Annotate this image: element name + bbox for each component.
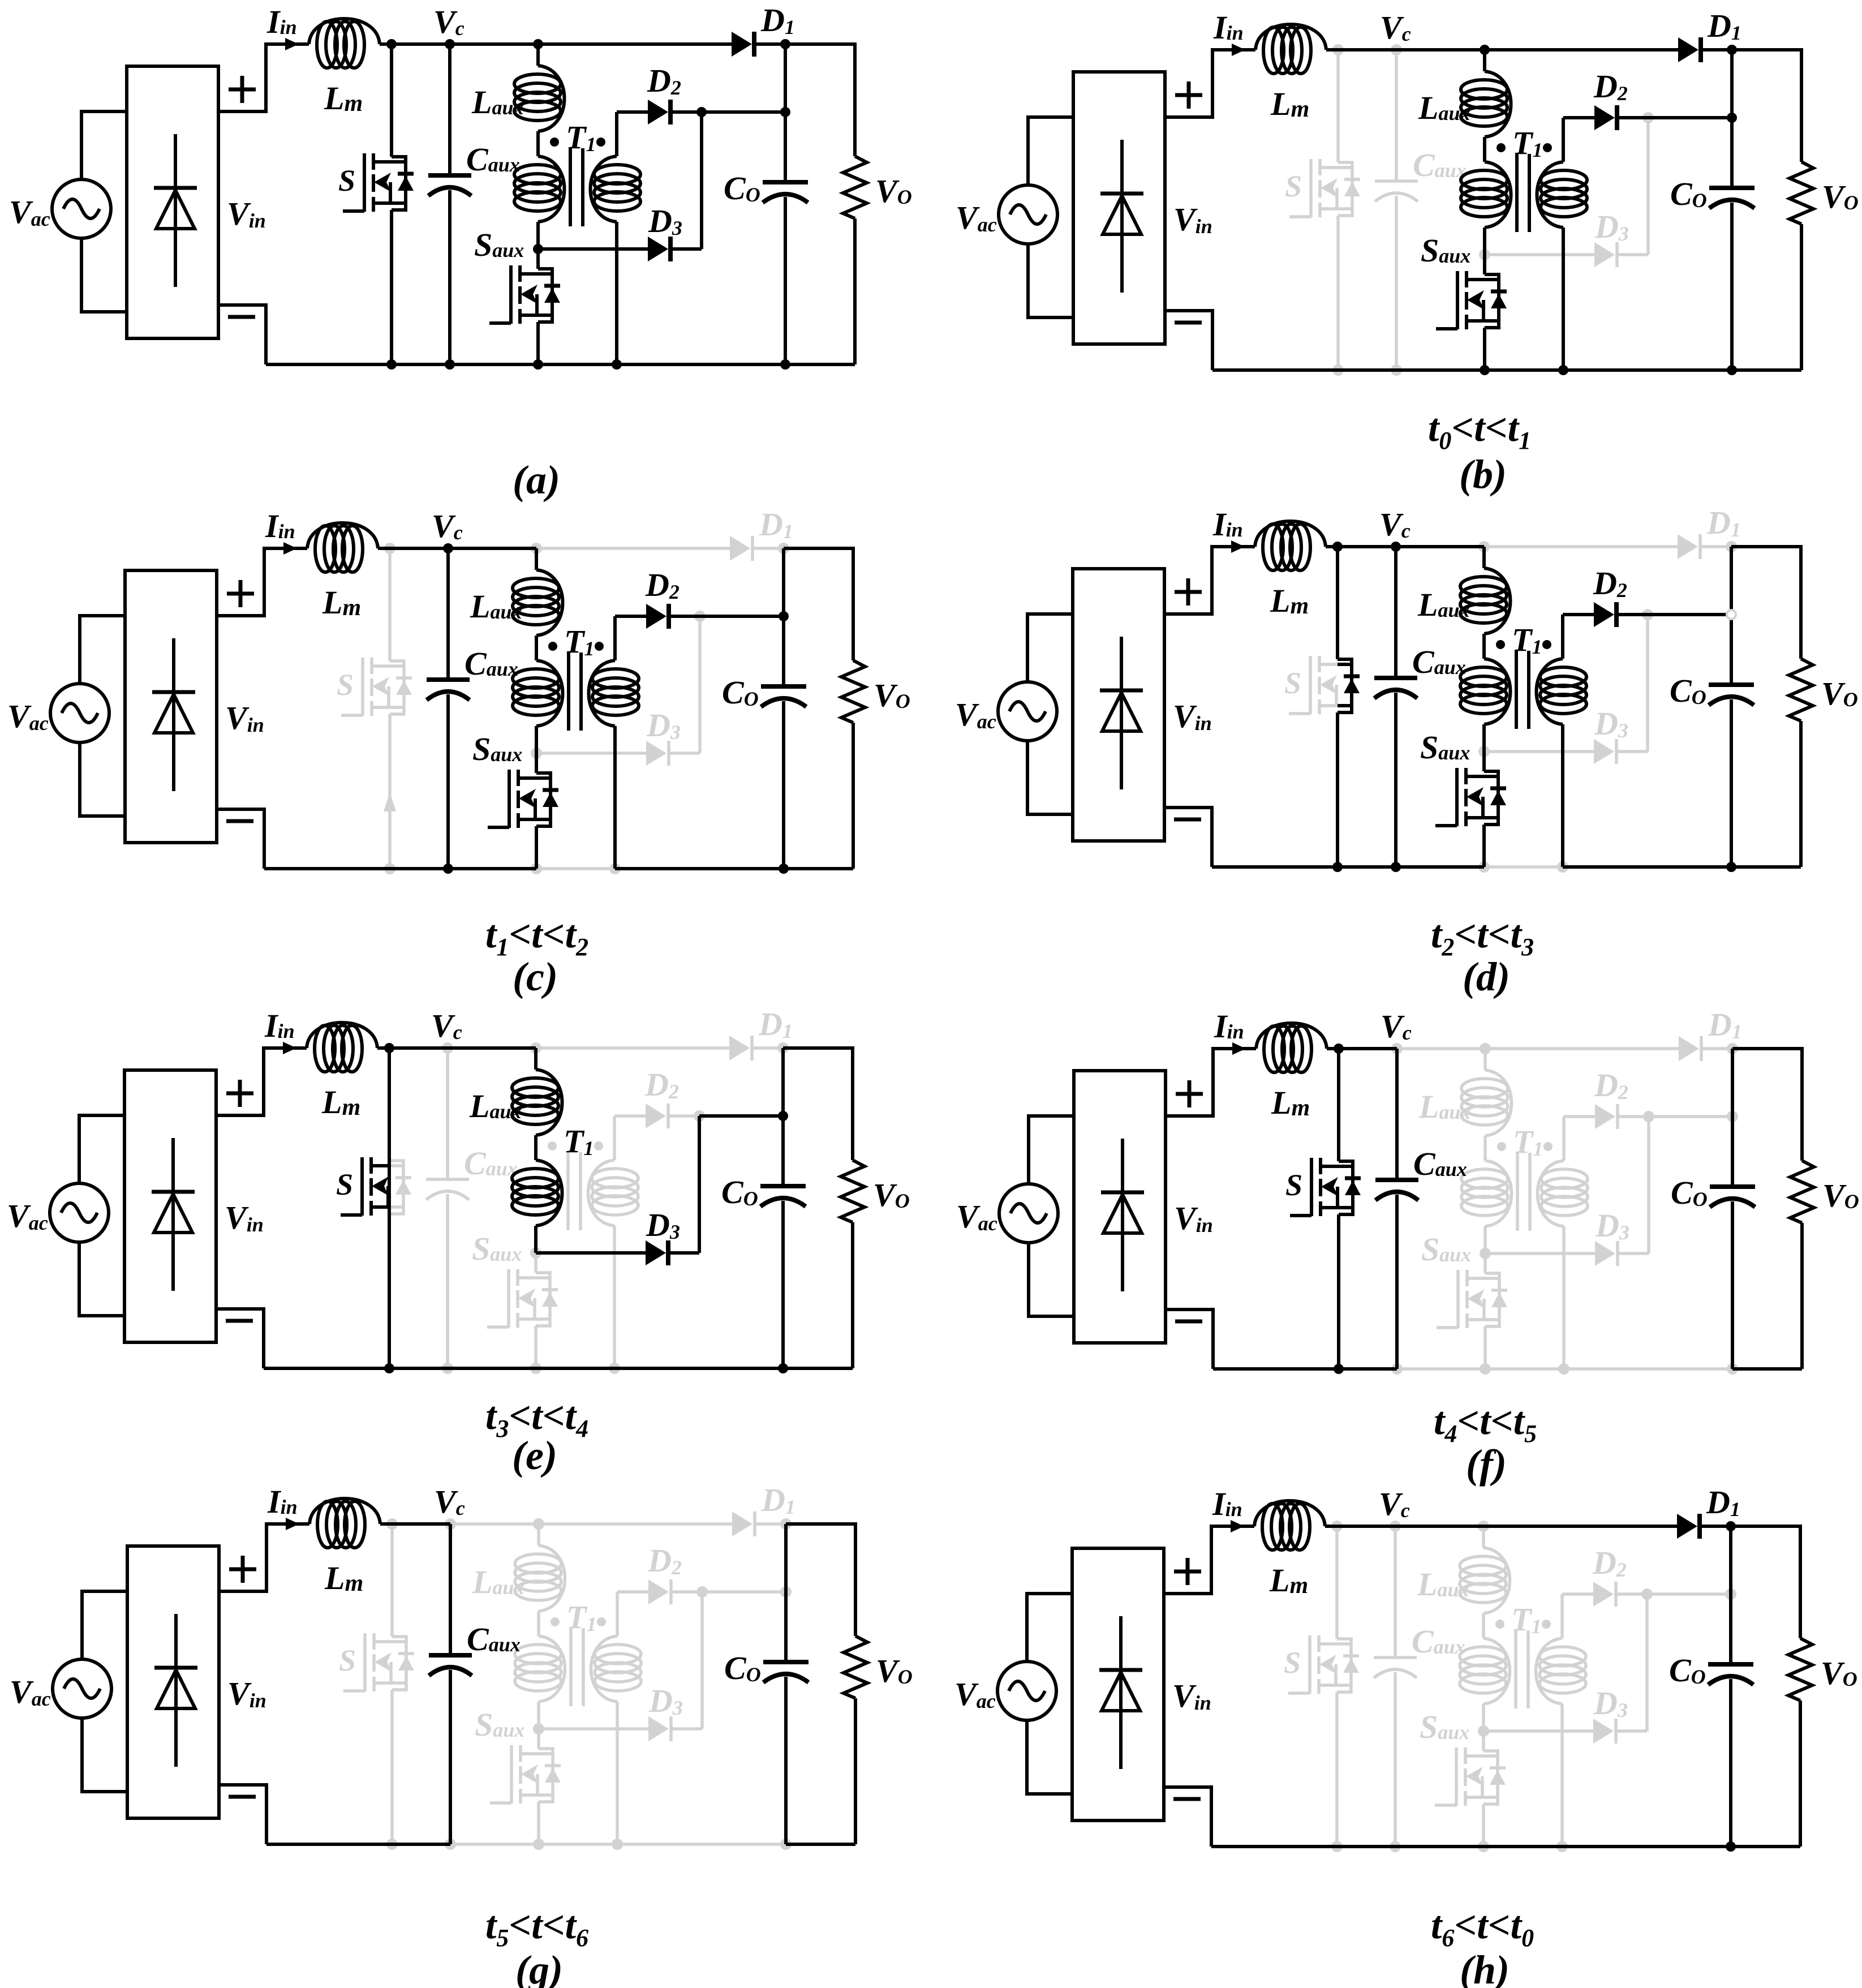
input current arrow Iin [1231,1520,1244,1532]
T1 polarity dot left [1496,640,1505,649]
wire top to Laux [1483,50,1486,71]
input current arrow Iin [283,1042,296,1054]
bottom rail Caux to Saux [450,1843,539,1846]
rail dot Saux [531,863,542,874]
inductor Lm [307,1023,377,1048]
svg-text:(d): (d) [1463,954,1510,999]
rail dot S [386,359,397,370]
node dot Saux [533,244,543,254]
wire top to Laux [534,1048,537,1070]
transformer T1 secondary winding [1560,1594,1564,1638]
wire Co to rail [784,1677,788,1844]
resistor Vo load [1790,1161,1814,1223]
wire secondary to D2 [1563,613,1594,616]
wire bridge to bottom rail [217,809,264,869]
transformer T1 core [1517,154,1529,232]
wire node N2 to node N3 [1649,1115,1732,1118]
wire Lm to node S [378,547,448,550]
bottom rail Co to corner [784,867,853,870]
node dot Saux [531,748,542,759]
riser D3 to N2 [1646,615,1649,752]
node dot Saux [1480,1248,1491,1259]
AC source Vac [998,682,1057,741]
wire Caux branch lower [449,1670,452,1844]
transformer T1 secondary winding [613,1116,616,1160]
wire N1 to N3 [781,1048,785,1116]
wire Saux node to D3 [1485,1252,1595,1255]
minus terminal [226,819,253,823]
wire Saux node to D3 [1483,1729,1593,1733]
wire bridge to bottom rail [219,1785,266,1844]
switch S gate and channel [1308,1635,1311,1694]
T1 polarity dot right [1543,1142,1553,1151]
T1 polarity dot right [594,1141,603,1150]
rail dot secondary [609,863,621,874]
rail dot S [386,1839,398,1850]
wire N3 to Co [784,112,787,182]
bottom rail Co to corner [785,363,855,366]
wire Caux branch upper [1395,50,1398,181]
wire node Laux to diode D1 [1485,48,1678,51]
rail dot secondary [609,1363,620,1374]
transformer T1 core [571,1628,583,1706]
resistor Vo load [844,1636,867,1698]
node dot N1 [1726,541,1737,552]
wire bridge to bottom rail [1165,311,1212,370]
wire Co to rail [1730,203,1734,370]
rail dot Saux [1480,365,1490,375]
bottom rail Saux to secondary [539,1843,617,1846]
node dot Vc [442,1042,453,1054]
wire D1 to node N1 [754,547,784,550]
minus terminal [1174,818,1201,822]
capacitor Caux [1374,1656,1417,1659]
T1 polarity dot right [597,1617,606,1626]
diode D1 [1678,37,1698,62]
bottom rail Saux to secondary [1483,1845,1562,1848]
resistor Vo load [841,1160,865,1222]
wire node Vc to node Laux [448,547,536,550]
switch Saux [1455,1747,1458,1806]
AC source Vac [53,1659,111,1718]
capacitor Co [763,1660,809,1664]
wire Caux branch upper [449,1524,452,1655]
wire secondary to D2 [617,1590,648,1594]
node dot N3 [780,1586,792,1598]
inductor Laux [1485,71,1511,137]
inductor Lm [1256,1023,1327,1049]
svg-text:S: S [1285,1168,1302,1202]
bottom rail S to Caux [392,1843,450,1846]
bottom rail Co to corner [1731,865,1801,869]
switch S body diode [1337,1639,1351,1692]
rail dot Co [779,864,789,874]
wire T1 to Saux drain [1482,752,1486,771]
wire N1 to N3 [1730,547,1733,615]
wire D1 to node N1 [1702,48,1732,51]
capacitor Caux [429,1653,472,1658]
transformer T1 core [568,1152,580,1230]
node dot N2 [696,1586,708,1598]
wire D3 to riser [1618,750,1648,753]
bottom rail bridge to S [1213,1367,1339,1371]
T1 polarity dot right [1542,640,1551,649]
input current arrow Iin [1232,44,1245,56]
wire bridge to bottom rail [1164,808,1212,867]
node dot Saux [533,1723,544,1734]
wire D3 to riser [672,1727,702,1731]
wire Laux to T1 primary [537,1611,540,1636]
wire N3 to Co [781,1116,785,1186]
input current arrow Iin [285,38,299,50]
wire secondary to D2 [617,110,648,114]
wire top to Laux [537,1524,540,1545]
diode D3 [648,1716,669,1741]
bottom rail Co to corner [1732,1367,1802,1371]
wire Laux to T1 primary [1483,137,1486,162]
node dot Saux [1479,249,1490,260]
capacitor Caux [1374,676,1417,680]
switch S gate and channel [1310,1158,1313,1216]
wire Saux source to rail [1483,328,1486,370]
bottom rail Caux to Saux [448,867,536,870]
wire Co to rail [1730,699,1733,867]
diode D3 [646,741,666,766]
minus terminal [226,1319,253,1323]
node dot top S [384,1043,394,1053]
wire node Laux to diode D1 [536,1046,729,1050]
wire S branch [388,548,392,661]
node dot top S [386,1518,398,1530]
wire node Vc to node Laux [1397,1047,1485,1050]
wire Saux source to rail [535,826,538,869]
bottom rail bridge to S [1212,368,1338,372]
wire S branch [1335,1526,1339,1639]
wire Lm to node S [380,1522,450,1526]
rail dot secondary [1557,861,1568,873]
plus terminal [1175,578,1202,606]
transformer T1 core [1517,1153,1530,1231]
node dot Vc [1391,44,1402,55]
node dot N1 [777,1042,789,1054]
inductor Lm [309,19,380,44]
wire node N2 to node N3 [700,615,784,618]
rail dot Caux [1391,1363,1403,1375]
switch S body diode [392,1637,406,1690]
bottom rail secondary to Co [1564,1367,1732,1371]
bottom rail bridge to S [264,1367,389,1370]
node dot top Laux [1478,1521,1489,1532]
node dot Vc [1391,1043,1403,1054]
wire node Vc to node Laux [1395,1525,1483,1528]
wire Co to rail [782,701,785,869]
diode D3 [1594,242,1615,267]
rail dot Caux [1391,364,1402,376]
wire Laux to T1 primary [1483,1136,1487,1161]
wire secondary to D2 [615,615,646,618]
AC source Vac [999,1184,1058,1243]
capacitor Co [1709,186,1755,190]
wire node N1 to top right corner [784,548,853,660]
capacitor Co [1708,1662,1753,1667]
wire D3 to riser [669,1251,699,1255]
wire Laux to T1 primary [534,1135,537,1160]
node dot top Laux [1480,45,1490,55]
bottom rail bridge to S [266,1843,392,1846]
switch S body diode [1339,1161,1353,1214]
bottom rail secondary to Co [1562,1845,1731,1848]
minus terminal [1175,1320,1202,1324]
wire Caux branch lower [1395,196,1398,370]
T1 polarity dot right [1542,1620,1551,1629]
bottom rail Co to corner [786,1843,855,1846]
diode D3 [648,237,668,261]
rail dot S [1332,364,1344,376]
bottom rail S to Caux [389,1367,448,1370]
capacitor Caux [1375,179,1418,183]
svg-text:(a): (a) [513,457,560,503]
diode D2 [1594,105,1615,130]
inductor Lm [1255,521,1326,547]
wire Caux branch upper [448,44,451,175]
rail dot Saux [533,1839,544,1850]
T1 polarity dot right [596,138,605,147]
wire D2 to node N2 [1617,1592,1647,1596]
riser D3 to N2 [1646,118,1650,255]
wire T1 to Saux drain [536,249,540,269]
wire D3 to riser [1619,1252,1649,1255]
wire Lm to node S [1326,545,1396,548]
AC source Vac [52,179,111,238]
svg-text:S: S [1285,169,1302,203]
diode D2 [646,604,666,629]
wire D3 to riser [670,752,700,755]
switch Saux [510,1745,513,1804]
bottom rail Co to corner [783,1367,853,1370]
resistor Vo load [1789,659,1813,721]
wire Saux source to rail [536,322,540,364]
riser D3 to N2 [700,1592,704,1729]
wire node N1 to top right corner [783,1048,853,1160]
diode D2 [646,1104,666,1128]
node dot Vc [445,39,455,49]
wire Caux branch upper [446,1048,449,1179]
diode D1 [1679,1036,1699,1061]
T1 polarity dot left [548,642,557,651]
wire bridge to bottom rail [218,305,266,364]
wire bridge to top rail [1164,547,1255,614]
wire bridge to bottom rail [216,1309,264,1368]
wire D1 to node N1 [1701,1525,1731,1528]
wire top to Laux [536,44,540,66]
transformer T1 secondary winding [616,1592,619,1636]
node dot top S [1332,44,1344,55]
plus terminal [1174,1558,1201,1585]
node dot Vc [1391,542,1401,552]
rail dot Co [1727,365,1737,375]
transformer T1 core [570,148,583,226]
svg-text:(c): (c) [513,954,558,999]
T1 polarity dot left [1497,1142,1506,1151]
switch S gate and channel [363,153,366,212]
wire D1 to node N1 [756,1522,786,1526]
wire Caux branch lower [446,694,450,869]
wire Lm to node S [1327,1047,1397,1050]
wire T1 to Saux drain [1483,255,1486,274]
riser D3 to N2 [700,112,703,249]
diode D1 [1678,534,1698,559]
bottom rail secondary to Co [614,1367,783,1370]
wire node Laux to diode D1 [539,1522,732,1526]
wire secondary to D2 [1563,116,1594,119]
diode D2 [648,100,668,124]
resistor Vo load [1788,1638,1812,1701]
wire T1 to Saux drain [1482,1731,1485,1751]
diode D1 [1677,1514,1697,1539]
bridge rectifier [127,66,218,338]
bottom rail S to Caux [1337,1845,1395,1848]
input current arrow Iin [283,542,297,555]
bottom rail bridge to S [1212,865,1338,869]
T1 polarity dot left [1495,1620,1504,1629]
bridge rectifier [125,570,217,843]
switch Saux [1456,271,1459,329]
rail dot Saux [1478,1841,1489,1852]
plus terminal [1176,1080,1203,1107]
wire node N2 to node N3 [702,1590,786,1594]
riser D3 to N2 [1645,1594,1649,1731]
bottom rail bridge to S [264,867,390,870]
switch Saux [1456,1270,1460,1328]
switch S gate and channel [361,658,364,716]
wire Laux to T1 primary [1482,634,1486,659]
node dot Vc [443,543,453,553]
plus terminal [229,1556,256,1583]
minus terminal [229,1795,256,1799]
bottom rail S to Caux [1338,368,1396,372]
node dot top S [1334,1044,1344,1054]
wire node N1 to top right corner [1731,1526,1800,1638]
wire Caux branch lower [446,1194,449,1368]
node open circle N3 [1727,610,1736,619]
wire D1 to node N1 [1702,1047,1732,1050]
switch S gate and channel [360,1157,364,1216]
wire D2 to node N2 [669,1114,699,1118]
bottom rail Saux to secondary [536,1367,614,1370]
T1 polarity dot right [1543,143,1552,152]
wire N1 to N3 [1729,1526,1732,1594]
wire S branch [1337,1049,1340,1161]
input current arrow Iin [1231,540,1245,553]
capacitor Caux [1375,1178,1418,1182]
svg-text:S: S [336,1167,353,1201]
svg-text:S: S [339,1643,356,1677]
diode D2 [1594,602,1614,627]
plus terminal [227,580,254,607]
bridge rectifier [1072,1548,1164,1820]
rail dot Caux [1391,862,1401,872]
wire Saux source to rail [1482,825,1486,867]
bottom rail S to Caux [1338,865,1396,869]
node dot N1 [778,543,789,554]
wire N3 to Co [784,1592,788,1662]
node dot N1 [780,39,790,49]
AC source Vac [999,185,1057,244]
bottom rail Saux to secondary [538,363,617,366]
wire node N2 to node N3 [1648,116,1732,119]
wire S branch [388,1048,391,1368]
wire Laux to T1 primary [536,131,540,156]
wire bridge to top rail [218,44,309,111]
bottom rail Caux to Saux [450,363,538,366]
node dot N3 [779,611,789,621]
capacitor Co [1710,1184,1755,1189]
node dot top S [384,543,395,554]
diode D3 [646,1240,666,1265]
wire D2 to node N2 [1618,116,1648,119]
switch S body diode [389,1161,403,1214]
diode D1 [732,1512,752,1536]
rail dot secondary [612,359,622,370]
svg-text:S: S [338,164,355,197]
wire Saux node to D3 [1484,750,1594,753]
transformer T1 secondary winding [1562,1117,1566,1161]
wire top to Laux [1482,1526,1485,1548]
wire node Vc to node Laux [450,42,538,46]
bottom rail Saux to secondary [1485,1367,1564,1371]
capacitor Caux [428,173,471,178]
T1 polarity dot left [550,138,559,147]
wire node N1 to top right corner [1732,1049,1802,1161]
wire Caux branch upper [1394,547,1397,678]
transformer T1 secondary winding [613,616,617,660]
node dot Saux [530,1247,541,1259]
wire Co to rail [781,1201,785,1368]
transformer T1 core [1516,1630,1528,1708]
transformer T1 primary winding [1485,162,1511,227]
diode D3 [1593,1719,1614,1744]
switch Saux [1455,768,1459,826]
wire bridge to bottom rail [1166,1309,1213,1369]
riser D3 to N2 [698,616,702,753]
wire N3 to Co [1730,615,1733,685]
inductor Laux [1484,568,1511,634]
wire Caux branch upper [446,548,450,680]
wire bridge to top rail [1166,1049,1256,1116]
plus terminal [1175,81,1202,109]
wire top to Laux [535,548,538,570]
bottom rail Caux to Saux [1395,1845,1483,1848]
svg-text:S: S [337,668,354,702]
wire D3 to riser [672,247,702,251]
svg-text:(b): (b) [1459,452,1507,497]
transformer T1 primary winding [539,1636,565,1702]
plus terminal [229,76,256,103]
diode D2 [1595,1104,1615,1129]
capacitor Caux [427,677,470,682]
wire node Laux to diode D1 [538,42,732,46]
wire Caux branch upper [1395,1049,1399,1180]
wire node Laux to diode D1 [1484,545,1678,548]
input current arrow Iin [286,1518,299,1530]
bottom rail Saux to secondary [1485,368,1563,372]
svg-text:S: S [1284,1646,1301,1680]
wire Saux node to D3 [536,752,646,755]
wire Lm to node S [1325,1525,1395,1528]
svg-text:(e): (e) [512,1433,557,1478]
switch S gate and channel [363,1633,367,1691]
wire Lm to node S [377,1046,448,1050]
